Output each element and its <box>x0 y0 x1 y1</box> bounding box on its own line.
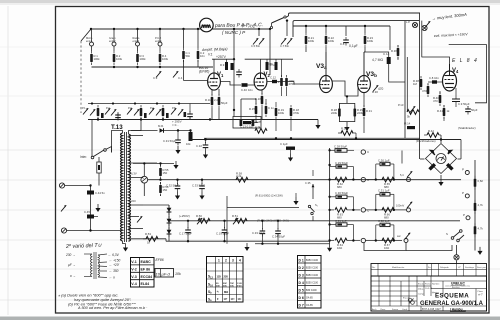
svg-text:Bº07-b-048_b027: Bº07-b-048_b027 <box>422 307 441 311</box>
resistor R16 <box>255 90 263 120</box>
svg-text:para Bou P A-P - A.C.: para Bou P A-P - A.C. <box>214 22 263 29</box>
divider box B1 <box>233 117 262 129</box>
svg-text:1M: 1M <box>413 82 418 86</box>
svg-text:ECC84: ECC84 <box>141 275 153 279</box>
wire: OT vertical a <box>404 21 406 138</box>
svg-text:C 1n: C 1n <box>268 106 274 110</box>
svg-text:C.29 50μF: C.29 50μF <box>335 161 348 165</box>
wire: switch to coil <box>106 147 112 153</box>
svg-text:Dibujado: Dibujado <box>440 267 449 269</box>
svg-text:Fe.: Fe. <box>428 267 432 269</box>
capacitor C43 <box>144 113 147 118</box>
node G <box>136 66 138 68</box>
svg-text:P.13: P.13 <box>398 103 404 107</box>
svg-text:(EF86): (EF86) <box>199 70 209 74</box>
left margin faint line <box>7 6 9 315</box>
wire: bridge right lead <box>458 158 462 160</box>
svg-text:470k: 470k <box>293 111 300 115</box>
svg-text:R.50: R.50 <box>196 214 202 218</box>
svg-text:4,7k: 4,7k <box>478 227 484 231</box>
tube V4 <box>443 64 460 91</box>
resistor R12 <box>364 25 374 76</box>
wire: V3a to V3b top link <box>332 81 358 96</box>
wire: switch drop <box>312 216 314 221</box>
node V <box>275 137 277 139</box>
resistor R24 <box>249 103 257 123</box>
svg-text:C.35: C.35 <box>305 181 311 185</box>
svg-text:5•20: 5•20 <box>237 285 242 287</box>
resistor R31b <box>363 92 373 133</box>
capacitor C36 <box>452 88 470 107</box>
fold lines <box>0 47 500 300</box>
tube V2 <box>254 72 270 90</box>
resistor R23 <box>236 172 248 183</box>
terminal P2 <box>462 191 469 198</box>
svg-text:100k: 100k <box>328 39 335 43</box>
resistor R26 <box>290 105 300 131</box>
potentiometer P6 <box>196 214 210 224</box>
node A <box>90 28 92 30</box>
diode list table <box>298 256 322 309</box>
transformer T13 primary coil <box>121 133 123 241</box>
resistor R41 <box>437 105 450 121</box>
wire: right chain bus <box>474 160 476 251</box>
capacitor C12 <box>187 104 193 120</box>
svg-text:D 7: D 7 <box>299 303 304 307</box>
wire: bottom rail 2437 <box>255 243 330 245</box>
speaker section group 2 cap <box>328 191 353 210</box>
capacitor C19 <box>179 220 192 243</box>
svg-text:GENERAL GA-900/1.A: GENERAL GA-900/1.A <box>420 301 484 307</box>
wire: row1 to terminal <box>366 180 407 241</box>
resistor R25 <box>275 102 285 131</box>
wire: V4 anode to top <box>422 57 450 64</box>
svg-text:10: 10 <box>156 271 161 276</box>
capacitor C4 <box>173 71 183 80</box>
resistor R9 <box>220 59 228 70</box>
node B <box>182 28 184 30</box>
svg-text:100k: 100k <box>367 39 374 43</box>
boxed annotation 10uF <box>155 269 181 278</box>
resistor R28 <box>331 106 341 120</box>
revision strip <box>371 264 487 277</box>
svg-text:10n: 10n <box>200 54 205 58</box>
svg-text:100k: 100k <box>94 57 101 61</box>
wire: V3a anode <box>325 26 327 78</box>
svg-text:Nombre: Nombre <box>432 283 440 286</box>
svg-text:E L 8 4: E L 8 4 <box>452 58 478 64</box>
svg-text:50μF: 50μF <box>471 108 478 112</box>
ground G4 <box>173 161 178 169</box>
svg-text:C.30 50μF: C.30 50μF <box>335 191 348 195</box>
svg-text:V3a: V3a <box>316 63 327 70</box>
valve list table <box>131 258 155 288</box>
svg-text:C.32 1μF: C.32 1μF <box>378 219 390 223</box>
V2 feedback cluster box <box>241 99 256 122</box>
node R <box>189 129 191 131</box>
capacitor C1 <box>182 29 190 67</box>
resistor R10b <box>231 59 234 70</box>
capacitor C28 <box>328 145 354 153</box>
svg-text:μF·d: μF·d <box>161 271 171 276</box>
svg-text:o →: o → <box>70 274 76 278</box>
tube V3a <box>316 63 332 93</box>
svg-text:B250 C100: B250 C100 <box>306 259 319 262</box>
svg-text:C.8 10n: C.8 10n <box>429 76 439 80</box>
svg-text:C.31 1μF: C.31 1μF <box>335 219 347 223</box>
diode D2s <box>167 216 172 226</box>
bottom scan band <box>0 317 500 320</box>
wire: chassis dashed line <box>80 41 82 113</box>
capacitor C40 <box>272 220 285 244</box>
resistor R21 <box>159 162 169 179</box>
resistor R43 <box>474 200 484 214</box>
svg-text:10C: 10C <box>230 285 234 287</box>
svg-text:OA 85: OA 85 <box>306 304 313 307</box>
svg-text:R.51: R.51 <box>232 214 238 218</box>
wire: OT vertical b <box>419 13 421 159</box>
svg-text:entr.4: entr.4 <box>155 39 162 43</box>
svg-text:D 2: D 2 <box>299 266 304 270</box>
output terminal O2 <box>352 177 370 182</box>
wire: to top rail <box>286 13 420 18</box>
ground G3 <box>123 244 128 252</box>
node S <box>159 179 161 181</box>
svg-text:(Stabilizador): (Stabilizador) <box>458 126 476 130</box>
title block <box>371 276 487 312</box>
resistor R17 <box>275 59 283 96</box>
svg-text:30C: 30C <box>223 285 227 287</box>
svg-text:R.36: R.36 <box>391 49 397 53</box>
capacitor C18 <box>192 180 205 200</box>
svg-text:B250 C100: B250 C100 <box>306 266 319 269</box>
svg-text:2,2k: 2,2k <box>236 174 242 178</box>
resistor R18 <box>372 85 384 94</box>
sketch: handwritten transformer <box>84 252 107 279</box>
svg-text:C.30 1μF: C.30 1μF <box>378 158 390 162</box>
svg-text:100k: 100k <box>308 39 315 43</box>
svg-text:V-1: V-1 <box>131 260 136 264</box>
svg-text:S₅: S₅ <box>315 203 318 207</box>
svg-text:P.5: P.5 <box>172 106 176 110</box>
svg-text:C.45: C.45 <box>84 210 90 214</box>
node D <box>258 28 260 30</box>
node P <box>89 184 91 186</box>
wire: output bus vertical <box>329 148 331 244</box>
svg-text:T.13: T.13 <box>111 124 123 131</box>
svg-text:R.41: R.41 <box>437 109 443 113</box>
svg-text:150: 150 <box>163 188 168 192</box>
resistor R30 <box>338 127 357 140</box>
resistor R65 <box>382 177 394 189</box>
svg-text:← 6,3V.: ← 6,3V. <box>108 253 120 257</box>
wire: bottom return loop <box>364 243 406 251</box>
svg-text:C.12: C.12 <box>270 76 276 80</box>
diode MR1 <box>158 124 191 133</box>
node Y <box>261 243 263 245</box>
wire: right cap column riser <box>401 151 403 164</box>
svg-text:C.32 50μF: C.32 50μF <box>166 184 179 188</box>
svg-text:16Ω: 16Ω <box>384 246 389 250</box>
svg-text:nº 7: nº 7 <box>478 293 483 297</box>
svg-text:C 1μF: C 1μF <box>280 142 288 146</box>
svg-text:(R.61) 600Ω (2×0,3W): (R.61) 600Ω (2×0,3W) <box>255 194 283 198</box>
svg-text:10k: 10k <box>175 272 181 276</box>
capacitor C14 <box>84 210 94 219</box>
svg-text:EABC: EABC <box>141 260 152 264</box>
svg-text:C.4: C.4 <box>178 76 183 80</box>
svg-text:220: 220 <box>131 199 136 203</box>
svg-text:10-9-58: 10-9-58 <box>425 288 433 290</box>
node T1d <box>156 102 158 104</box>
mains terminal T2 <box>61 228 122 233</box>
resistor R66 <box>382 208 394 220</box>
resistor R18b <box>285 59 295 96</box>
annotation: sketch labels <box>65 253 120 280</box>
resistor R38 <box>413 76 422 90</box>
resistor R10 <box>305 25 315 52</box>
fuse F1 <box>97 150 112 186</box>
svg-text:← o: ← o <box>109 276 115 280</box>
wire: bottom return rail <box>166 240 330 242</box>
svg-text:Sustituye: Sustituye <box>465 266 475 269</box>
wire: V3b anode <box>363 52 365 78</box>
capacitor C32 <box>375 158 396 181</box>
svg-text:Cond.: Cond. <box>402 309 408 311</box>
svg-text:Sust. por: Sust. por <box>477 266 486 269</box>
wire: V1 grid feed <box>184 67 209 81</box>
resistor R20 <box>186 131 193 147</box>
svg-text:R.15: R.15 <box>249 107 255 111</box>
capacitor C14 <box>364 52 397 82</box>
capacitor C38 <box>404 122 415 130</box>
svg-text:M.R.: M.R. <box>158 124 164 128</box>
capacitor C37 <box>465 106 478 115</box>
wire: bridge bottom lead <box>438 175 443 186</box>
wire: mid rail 207 <box>227 207 299 209</box>
wire: T13 primary top lead <box>112 131 123 153</box>
svg-text:V-3: V-3 <box>131 275 136 279</box>
node Q <box>89 229 91 231</box>
svg-text:C.32: C.32 <box>196 144 202 148</box>
resistor R3 <box>136 46 146 65</box>
svg-text:100k: 100k <box>278 111 285 115</box>
svg-text:2: 2 <box>225 258 227 262</box>
svg-text:A 500 ud wen. Per ap Filtre: A 500 ud wen. Per ap Filtre Aleman m.b⁻ <box>77 306 148 310</box>
resistor R42 <box>474 176 484 190</box>
svg-text:← +20′: ← +20′ <box>109 263 119 267</box>
capacitor C15 <box>163 129 191 154</box>
wire: tone ground bus <box>88 119 318 121</box>
svg-text:220k: 220k <box>357 111 364 115</box>
pilot lamp L1 <box>406 20 418 28</box>
potentiometer P5 <box>171 106 183 116</box>
svg-text:10k: 10k <box>186 142 191 146</box>
node M <box>162 118 164 120</box>
phase splitter load box <box>339 95 354 121</box>
resistor R32 <box>328 177 353 189</box>
svg-text:EF86: EF86 <box>156 258 164 262</box>
capacitor C42 <box>101 113 104 118</box>
wire: coil top left lead2 <box>112 152 123 154</box>
terminal T5 <box>397 233 410 243</box>
node T1a <box>91 102 93 104</box>
wire: HT secondary to rectifier <box>131 130 158 132</box>
potentiometer P7 <box>232 214 247 224</box>
resistor R12b <box>218 89 228 120</box>
svg-text:R.31: R.31 <box>366 109 372 113</box>
capacitor C34 <box>375 219 396 242</box>
resistor R11 <box>325 25 335 76</box>
svg-text:V.1: V.1 <box>208 53 213 57</box>
capacitor C5 <box>251 29 264 48</box>
svg-text:470: 470 <box>433 99 438 103</box>
svg-text:C.31 50μF: C.31 50μF <box>163 139 176 143</box>
svg-text:Viº: Viº <box>458 266 461 269</box>
svg-text:← +150: ← +150 <box>109 259 120 263</box>
node U <box>201 179 203 181</box>
wire: R53 left link <box>143 238 146 240</box>
speaker section group 1 cap <box>330 161 354 180</box>
wire: mains vertical <box>90 186 92 231</box>
svg-text:Fecha: Fecha <box>425 284 432 286</box>
svg-text:10n: 10n <box>248 88 253 92</box>
switch S4 <box>305 170 318 215</box>
fuse arrow <box>61 205 66 211</box>
wire: long vertical feed <box>233 29 235 117</box>
svg-text:220: 220 <box>224 274 229 278</box>
wire: 180V rail <box>148 179 461 181</box>
svg-text:4: 4 <box>239 258 241 262</box>
svg-text:Dibuj.: Dibuj. <box>418 289 424 291</box>
resistor R15 <box>275 59 278 70</box>
capacitor C39 <box>252 220 265 244</box>
diode D3s <box>167 227 172 237</box>
svg-text:C.44 5n: C.44 5n <box>95 191 105 195</box>
node T <box>176 179 178 181</box>
wire: diode stack vertical <box>168 205 170 241</box>
svg-text:R.9: R.9 <box>220 63 225 67</box>
speaker section group 3 cap <box>328 219 353 241</box>
svg-text:MΩ: MΩ <box>224 290 228 294</box>
capacitor C33 <box>375 189 396 211</box>
wire: rail corner diagonal <box>81 29 91 41</box>
node C <box>197 28 199 30</box>
svg-text:D 5: D 5 <box>299 288 304 292</box>
svg-text:+257V: +257V <box>216 55 227 59</box>
svg-text:P.2: P.2 <box>106 106 110 110</box>
resistor R67 <box>382 238 394 250</box>
tap arrow <box>137 216 142 222</box>
svg-text:5,4: 5,4 <box>400 173 404 177</box>
svg-text:1: 1 <box>218 258 220 262</box>
ground G7 <box>327 244 332 252</box>
wire: return loop right <box>406 245 452 251</box>
svg-text:Modificación: Modificación <box>392 267 405 269</box>
potentiometer P1 <box>82 105 99 119</box>
resistor R4 <box>159 46 169 65</box>
svg-text:R.11: R.11 <box>205 98 211 102</box>
resistor R44 <box>474 223 484 237</box>
wire: lower rail 224 <box>245 224 299 226</box>
svg-text:Inter.: Inter. <box>80 155 87 159</box>
svg-text:680: 680 <box>337 185 342 189</box>
svg-text:C.3: C.3 <box>153 76 158 80</box>
ground G5 <box>244 243 249 251</box>
svg-text:= 0…: = 0… <box>172 123 179 127</box>
resistor R39 <box>422 83 429 97</box>
wire: AC signal bus <box>204 137 420 139</box>
svg-text:0,1μF: 0,1μF <box>349 44 358 48</box>
wire: mid rail 180 <box>143 179 145 181</box>
diode D1s <box>167 205 172 215</box>
node W <box>290 137 292 139</box>
wire: rail row1 extension <box>363 179 406 181</box>
output terminal O3 <box>352 208 370 213</box>
output terminal O1 <box>361 150 370 154</box>
capacitor C11 <box>115 112 121 121</box>
svg-text:← 350: ← 350 <box>109 269 119 273</box>
svg-text:EF 86: EF 86 <box>141 267 151 271</box>
svg-text:μF →: μF → <box>67 263 76 267</box>
input jack J4 <box>155 28 162 46</box>
potentiometer P4 <box>149 105 164 119</box>
switch S2 mains <box>80 120 106 160</box>
node H <box>159 66 161 68</box>
svg-text:Comp.: Comp. <box>418 294 425 296</box>
rectifier bridge MR2 <box>426 144 457 174</box>
svg-text:6,3V: 6,3V <box>131 172 137 176</box>
switch S3 <box>446 230 464 242</box>
svg-text:Arch.: Arch. <box>372 308 377 311</box>
svg-text:B250 C100: B250 C100 <box>306 274 319 277</box>
svg-text:0,82: 0,82 <box>478 179 484 183</box>
svg-text:C.34 50μF: C.34 50μF <box>272 235 285 239</box>
wire: bridge left lead <box>420 158 425 160</box>
svg-text:16Ω: 16Ω <box>337 246 342 250</box>
node AA <box>233 58 235 60</box>
svg-text:10³: 10³ <box>224 297 228 301</box>
capacitor C12b <box>267 76 295 84</box>
potentiometer P3 <box>127 105 142 119</box>
svg-text:4,7k: 4,7k <box>478 203 484 207</box>
transformer T13 core2 <box>126 132 128 242</box>
transformer tap leads right <box>129 136 167 239</box>
mains terminal T1 <box>59 183 90 188</box>
svg-text:(+250V): (+250V) <box>179 214 190 218</box>
svg-text:Barcelona: Barcelona <box>452 286 460 289</box>
resistor R31 <box>328 164 334 166</box>
svg-text:(Rectificadores): (Rectificadores) <box>416 139 436 143</box>
tube V3b <box>358 71 377 93</box>
node T1e <box>178 102 180 104</box>
svg-text:V4: V4 <box>452 68 459 74</box>
feedback loop box <box>449 45 487 103</box>
capacitor C2 <box>197 29 205 67</box>
svg-text:C.28 50μF: C.28 50μF <box>334 145 347 149</box>
svg-text:I Hambu…: I Hambu… <box>450 308 466 312</box>
svg-text:100k: 100k <box>116 57 123 61</box>
terminal P3 <box>463 213 470 220</box>
svg-text:4,7 MΩ: 4,7 MΩ <box>372 58 383 62</box>
capacitor C6 <box>269 29 271 75</box>
svg-text:B30 C200: B30 C200 <box>306 289 317 292</box>
wire: V2 to V3 <box>294 82 320 85</box>
svg-text:C.33 20μF: C.33 20μF <box>252 231 265 235</box>
scale logo <box>403 298 414 305</box>
tube V1 <box>208 72 224 90</box>
potentiometer P2 <box>105 106 116 116</box>
